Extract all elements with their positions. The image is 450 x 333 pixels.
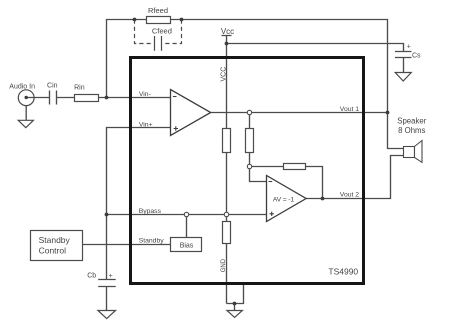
- svg-text:Speaker: Speaker: [397, 116, 426, 125]
- svg-text:Standby: Standby: [139, 238, 165, 245]
- svg-text:VCC: VCC: [220, 67, 227, 82]
- svg-text:+: +: [407, 43, 411, 50]
- svg-text:Cfeed: Cfeed: [152, 27, 172, 36]
- svg-text:Vcc: Vcc: [221, 27, 234, 36]
- svg-text:Vin+: Vin+: [139, 121, 153, 128]
- svg-text:Vout 2: Vout 2: [340, 191, 359, 198]
- svg-text:Control: Control: [39, 245, 67, 255]
- svg-text:Cs: Cs: [412, 53, 421, 60]
- svg-text:TS4990: TS4990: [328, 267, 358, 277]
- svg-text:Cin: Cin: [47, 83, 58, 90]
- svg-text:Rfeed: Rfeed: [148, 6, 168, 15]
- svg-text:Bias: Bias: [180, 243, 194, 250]
- svg-text:Cb: Cb: [87, 273, 96, 280]
- svg-text:Audio In: Audio In: [9, 83, 35, 90]
- svg-text:Vin-: Vin-: [139, 91, 151, 98]
- svg-text:Rin: Rin: [74, 85, 85, 92]
- svg-text:GND: GND: [221, 258, 227, 272]
- svg-text:8 Ohms: 8 Ohms: [398, 126, 425, 135]
- svg-text:Vout 1: Vout 1: [340, 106, 359, 113]
- svg-text:Bypass: Bypass: [139, 208, 162, 215]
- svg-text:AV = -1: AV = -1: [273, 197, 295, 204]
- svg-text:Standby: Standby: [39, 235, 71, 245]
- svg-text:+: +: [109, 273, 113, 280]
